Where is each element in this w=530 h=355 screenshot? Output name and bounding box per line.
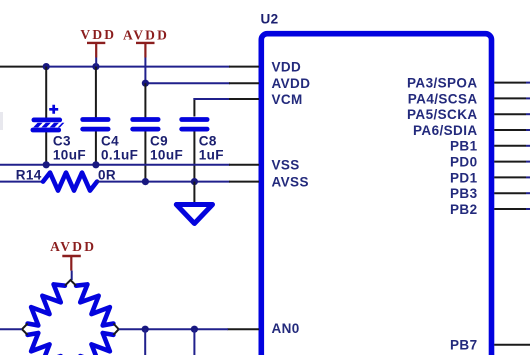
resistor R14 <box>43 173 97 191</box>
svg-text:PD0: PD0 <box>450 155 477 170</box>
junction dot AN0 b <box>191 326 198 333</box>
svg-text:VDD: VDD <box>272 60 302 75</box>
off-page component edge artifact <box>0 112 3 130</box>
svg-text:0.1uF: 0.1uF <box>101 148 138 163</box>
capacitor C8 <box>179 117 209 131</box>
bridge resistor upper-left <box>28 284 65 325</box>
capacitor C4 <box>80 117 110 131</box>
svg-text:PD1: PD1 <box>450 170 478 185</box>
bridge resistor lower-left <box>28 333 65 355</box>
U2 pin PB1 <box>450 139 530 154</box>
junction dot VDD/C4 <box>92 63 99 70</box>
power symbol AVDD (bridge) <box>50 239 96 271</box>
U2 pin AN0 <box>227 321 299 336</box>
U2 pin VSS <box>229 158 300 173</box>
junction dot AVSS/C9 <box>142 178 149 185</box>
capacitor C4 lead top <box>95 67 97 118</box>
svg-text:AVDD: AVDD <box>272 76 311 91</box>
svg-text:0R: 0R <box>98 168 116 183</box>
wire bridge left <box>0 328 22 330</box>
U2 pin PB2 <box>450 202 530 217</box>
power symbol VDD <box>80 27 116 66</box>
wire down a <box>144 329 146 355</box>
svg-text:C8: C8 <box>199 133 217 148</box>
bridge resistor upper-right <box>76 284 113 325</box>
U2 pin PD0 <box>450 155 530 170</box>
svg-text:AVDD: AVDD <box>50 239 96 254</box>
wire VDD net left segment (off-page, black) <box>0 66 46 68</box>
svg-text:10uF: 10uF <box>53 148 86 163</box>
svg-text:VCM: VCM <box>272 92 303 107</box>
wire AVDD net <box>145 82 230 84</box>
svg-text:10uF: 10uF <box>150 148 183 163</box>
capacitor C8 lead bottom <box>193 131 195 182</box>
wire VDD net <box>45 66 230 68</box>
U2 pin PB7 <box>450 338 530 353</box>
bridge node right <box>113 324 118 335</box>
svg-text:AN0: AN0 <box>272 321 300 336</box>
svg-text:PB2: PB2 <box>450 202 477 217</box>
wire down b <box>193 329 195 355</box>
capacitor C9 <box>130 117 160 131</box>
capacitor C3 lead top <box>45 67 47 118</box>
svg-text:PA5/SCKA: PA5/SCKA <box>407 107 477 122</box>
U2 pin PA4/SCSA <box>408 91 530 106</box>
svg-text:C3: C3 <box>53 133 71 148</box>
U2 pin VCM <box>229 92 303 107</box>
U2 pin AVSS <box>229 175 309 190</box>
wire AVDD vertical <box>144 58 146 84</box>
bridge node left <box>22 324 28 335</box>
svg-text:C4: C4 <box>101 133 119 148</box>
svg-text:PB1: PB1 <box>450 139 478 154</box>
wire VSS net <box>0 164 230 166</box>
U2 pin PA5/SCKA <box>407 107 530 122</box>
capacitor C9 lead bottom <box>144 131 146 182</box>
capacitor C3 lead bottom <box>45 132 47 165</box>
wire bridge output AN0 <box>119 328 228 330</box>
junction dot AN0 a <box>142 326 149 333</box>
U2 pin AVDD <box>229 76 310 91</box>
svg-text:PB7: PB7 <box>450 338 477 353</box>
svg-text:R14: R14 <box>16 168 42 183</box>
U2 pin PD1 <box>450 170 530 185</box>
svg-text:PB3: PB3 <box>450 186 478 201</box>
capacitor C3 (polarized) <box>31 105 65 133</box>
bridge resistor lower-right <box>76 333 113 355</box>
junction dot VSS/C3 <box>43 161 50 168</box>
junction dot VDD/C3 <box>43 63 50 70</box>
junction dot AVDD/C9 <box>142 80 149 87</box>
U2 pin VDD <box>229 60 301 75</box>
capacitor C9 lead top <box>144 83 146 118</box>
svg-text:PA3/SPOA: PA3/SPOA <box>407 76 477 91</box>
svg-text:U2: U2 <box>261 11 279 26</box>
svg-text:VSS: VSS <box>272 158 300 173</box>
wire VCM net <box>193 98 195 117</box>
wire AVSS net right <box>97 181 230 183</box>
capacitor C4 lead bottom <box>95 131 97 165</box>
junction dot VSS/C4 <box>92 161 99 168</box>
svg-text:C9: C9 <box>150 133 168 148</box>
svg-text:PA4/SCSA: PA4/SCSA <box>408 91 478 106</box>
U2 pin PA3/SPOA <box>407 76 530 91</box>
wire AVDD to bridge <box>71 271 73 280</box>
U2 pin PB3 <box>450 186 530 201</box>
power symbol AVDD <box>123 28 169 58</box>
svg-text:AVDD: AVDD <box>123 28 169 43</box>
svg-text:PA6/SDIA: PA6/SDIA <box>413 123 477 138</box>
IC U2 box <box>261 34 491 355</box>
wire AVSS net left <box>0 181 43 183</box>
svg-text:AVSS: AVSS <box>272 175 309 190</box>
ground lead <box>193 182 195 205</box>
bridge node top <box>65 280 76 286</box>
junction dot AVSS/C8/GND <box>191 178 198 185</box>
U2 pin PA6/SDIA <box>413 123 530 138</box>
ground <box>176 205 212 224</box>
svg-text:1uF: 1uF <box>199 148 224 163</box>
svg-text:VDD: VDD <box>80 27 116 42</box>
